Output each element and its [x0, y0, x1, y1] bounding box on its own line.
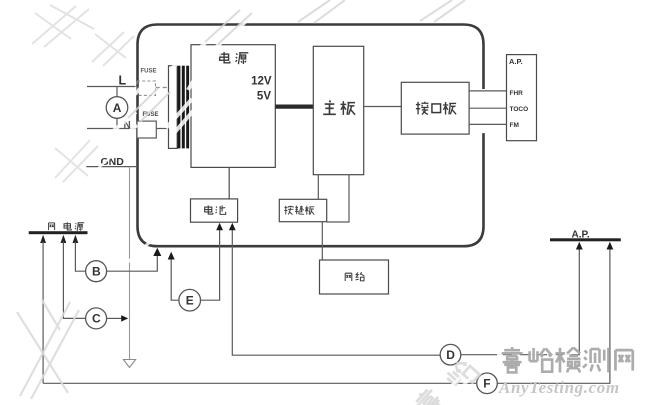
watermark X bottom-left: [17, 300, 79, 399]
wire FM: [469, 123, 507, 125]
svg-text:AnyTesting.com: AnyTesting.com: [498, 378, 620, 397]
svg-text:E: E: [186, 294, 194, 308]
wire L: [87, 86, 136, 88]
meter F: [477, 373, 498, 394]
svg-text:A: A: [113, 101, 122, 115]
label B: [92, 265, 101, 279]
wire mains to F line: [43, 382, 477, 384]
label 网络 (network): [345, 272, 364, 281]
fuse F2: [137, 121, 156, 138]
wire D to applied part bar: [461, 248, 580, 355]
arrow E to battery: [216, 223, 223, 231]
arrow E to enclosure: [168, 252, 175, 260]
label C: [92, 312, 101, 326]
interface board box U3: [401, 82, 469, 134]
svg-text:FUSE: FUSE: [141, 69, 157, 75]
label E: [186, 294, 194, 308]
enclosure rounded rectangle: [138, 25, 484, 247]
watermark gray marks centre: [128, 0, 465, 122]
svg-text:FM: FM: [510, 122, 519, 129]
svg-text:F: F: [483, 377, 490, 391]
label A: [113, 101, 122, 115]
label A.P. bottom: [572, 229, 590, 240]
label D: [446, 348, 455, 362]
meter C: [86, 308, 107, 329]
fuse F1 label: [141, 69, 157, 75]
label 主板 (mainboard): [323, 101, 355, 115]
watermark AnyTesting.com: [498, 378, 620, 397]
watermark white dashes over D wire: [497, 354, 571, 356]
network box U5: [320, 260, 389, 294]
label N: [124, 120, 131, 131]
label GND: [101, 156, 125, 168]
arrow B to enclosure: [153, 248, 161, 256]
label F: [483, 377, 490, 391]
svg-text:L: L: [119, 74, 127, 88]
mainboard box U2: [313, 46, 363, 174]
wire GND: [86, 166, 137, 168]
label L: [119, 74, 127, 88]
label 网 电源 (mains supply): [49, 222, 85, 231]
applied part bar: [550, 238, 621, 241]
arrow to mains bar mid: [61, 235, 67, 243]
label 按键板 (keypad board): [284, 206, 314, 215]
wire mains bar to C: [63, 242, 85, 319]
wire F to applied part bar: [497, 248, 610, 384]
meter A: [106, 97, 128, 119]
watermark 嘉峪检测网 bottom right: [502, 347, 633, 372]
svg-text:D: D: [446, 348, 455, 362]
ground symbol: [123, 360, 135, 368]
transformer T1 core bars: [178, 66, 190, 149]
watermark white dashes over F wire: [447, 376, 472, 392]
svg-text:A.P.: A.P.: [509, 57, 523, 66]
wire fuse F2 to transformer: [156, 128, 168, 130]
meter B: [86, 261, 107, 282]
applied part box AP1: [507, 55, 537, 141]
wire A meter stubs: [116, 87, 118, 129]
wire TOCO: [469, 107, 507, 109]
label FHR: [510, 90, 524, 97]
wire mainboard to interface board: [364, 106, 402, 108]
arrow to mains bar right: [73, 235, 79, 243]
svg-text:TOCO: TOCO: [510, 106, 529, 113]
arrow battery line: [229, 223, 236, 231]
wire earth vertical: [129, 167, 131, 360]
fuse F2 label: [143, 112, 159, 118]
meter E: [179, 289, 201, 311]
wire N: [87, 128, 137, 130]
label A.P.: [509, 57, 523, 66]
wire B to enclosure: [107, 254, 158, 271]
watermark white streaks over lines: [94, 17, 250, 262]
wire mains bar to B: [75, 242, 85, 272]
wire C to earth line: [107, 317, 123, 319]
wire E to battery: [201, 229, 220, 301]
battery box BT1: [191, 199, 238, 222]
watermark faint bottom right diagonal: [412, 358, 480, 405]
meter D: [440, 344, 461, 365]
wire fuse F1 to transformer: [156, 87, 170, 89]
wire E to enclosure: [171, 258, 179, 300]
mains supply bar: [29, 231, 88, 234]
label 接口板 (interface board): [416, 102, 456, 115]
arrow D to AP bar: [576, 242, 583, 250]
arrow F to AP bar: [607, 242, 614, 250]
fuse F1: [137, 81, 156, 95]
label 电源 (power): [220, 52, 249, 64]
svg-text:12V: 12V: [251, 76, 272, 88]
wire power to battery: [228, 167, 230, 199]
arrow C to earth line: [121, 315, 128, 321]
watermark diagonal band top-left: [32, 5, 134, 182]
label TOCO: [510, 106, 529, 113]
wire FHR: [469, 90, 507, 92]
arrow to mains bar left: [40, 235, 46, 243]
svg-text:C: C: [92, 312, 101, 326]
wire mainboard to keypad: [317, 175, 319, 200]
wire keypad to network: [321, 222, 323, 260]
label FM: [510, 122, 519, 129]
label 电池 (battery): [205, 205, 226, 214]
wire mains bar to F line: [42, 242, 44, 384]
svg-text:B: B: [92, 265, 101, 279]
svg-text:FHR: FHR: [510, 90, 524, 97]
wire 5V power to mainboard: [275, 104, 313, 108]
keypad box U4: [279, 199, 326, 221]
svg-text:5V: 5V: [257, 91, 271, 103]
power supply box U1: [191, 45, 275, 168]
label 5V: [257, 91, 271, 103]
label 12V: [251, 76, 272, 88]
transformer T1 winding box: [169, 66, 178, 149]
wire mainboard to keypad right loop: [327, 175, 349, 222]
wire battery to D line: [232, 229, 440, 356]
